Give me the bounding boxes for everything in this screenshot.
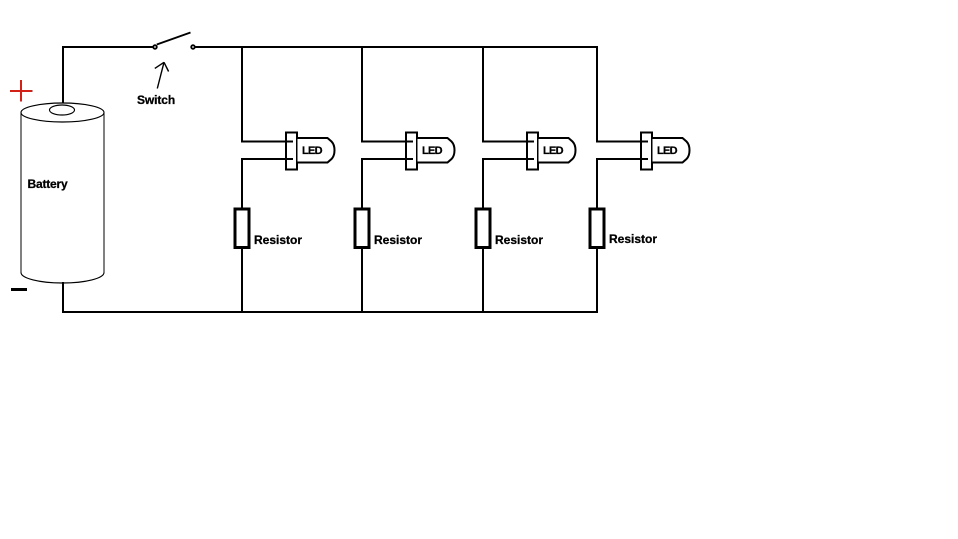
switch callout arrow bbox=[155, 62, 169, 88]
svg-text:Resistor: Resistor bbox=[609, 232, 657, 246]
battery bottom arc bbox=[21, 273, 104, 283]
wire: branch 1 vertical from LED cathode to resistor R1 bbox=[241, 158, 243, 208]
switch S1 right contact bbox=[191, 45, 195, 49]
wire: branch 4 vertical from LED cathode to resistor R4 bbox=[596, 158, 598, 208]
LED D4 body bbox=[653, 138, 690, 163]
wire: branch 4 vertical from top rail to LED anode lead bbox=[596, 46, 598, 143]
svg-text:Resistor: Resistor bbox=[495, 233, 543, 247]
wire: bottom rail bbox=[62, 311, 598, 313]
LED D2 flange bbox=[406, 133, 417, 170]
resistor R4 bbox=[590, 209, 604, 248]
battery body left side bbox=[20, 113, 22, 273]
battery top ellipse bbox=[21, 103, 104, 122]
wire: LED D4 top lead (anode) bbox=[596, 141, 648, 143]
battery terminal button ellipse bbox=[50, 105, 75, 115]
wire: branch 3 vertical from resistor R3 to bottom rail bbox=[482, 248, 484, 313]
wire: branch 2 vertical from resistor R2 to bottom rail bbox=[361, 248, 363, 313]
wire: LED D3 top lead (anode) bbox=[482, 141, 534, 143]
wire: LED D4 bottom lead (cathode) bbox=[596, 158, 648, 160]
svg-text:LED: LED bbox=[302, 145, 323, 157]
wire: branch 3 vertical from LED cathode to resistor R3 bbox=[482, 158, 484, 208]
svg-text:Battery: Battery bbox=[28, 177, 68, 191]
LED D3 body bbox=[539, 138, 576, 163]
wire: branch 1 vertical from top rail to LED anode lead bbox=[241, 46, 243, 143]
wire: branch 1 vertical from resistor R1 to bottom rail bbox=[241, 248, 243, 313]
LED D1 flange bbox=[286, 133, 297, 170]
wire: branch 4 vertical from resistor R4 to bottom rail bbox=[596, 248, 598, 313]
svg-text:LED: LED bbox=[657, 145, 678, 157]
svg-text:LED: LED bbox=[422, 145, 443, 157]
battery body right side bbox=[103, 113, 105, 273]
wire: branch 2 vertical from LED cathode to resistor R2 bbox=[361, 158, 363, 208]
LED D2 body bbox=[418, 138, 455, 163]
LED D4 flange bbox=[641, 133, 652, 170]
wire: LED D1 bottom lead (cathode) bbox=[241, 158, 293, 160]
battery negative (-) symbol bbox=[11, 288, 27, 291]
resistor R1 bbox=[235, 209, 249, 248]
svg-text:Resistor: Resistor bbox=[254, 233, 302, 247]
switch S1 left contact bbox=[153, 45, 157, 49]
resistor R2 bbox=[355, 209, 369, 248]
wire: branch 3 vertical from top rail to LED anode lead bbox=[482, 46, 484, 143]
wire: battery negative terminal to bottom rail bbox=[62, 282, 64, 313]
svg-text:Resistor: Resistor bbox=[374, 233, 422, 247]
wire: LED D3 bottom lead (cathode) bbox=[482, 158, 534, 160]
wire: branch 2 vertical from top rail to LED anode lead bbox=[361, 46, 363, 143]
svg-text:LED: LED bbox=[543, 145, 564, 157]
wire: LED D2 bottom lead (cathode) bbox=[361, 158, 413, 160]
resistor R3 bbox=[476, 209, 490, 248]
wire: top rail right segment (switch to right edge) bbox=[196, 46, 599, 48]
wire: LED D1 top lead (anode) bbox=[241, 141, 293, 143]
wire: top rail left segment (battery + to switch) bbox=[62, 46, 153, 48]
LED D3 flange bbox=[527, 133, 538, 170]
LED D1 body bbox=[298, 138, 335, 163]
battery positive (+) symbol bbox=[10, 80, 32, 102]
switch S1 lever bbox=[157, 33, 191, 45]
wire: LED D2 top lead (anode) bbox=[361, 141, 413, 143]
wire: battery positive terminal to top rail bbox=[62, 46, 64, 104]
svg-text:Switch: Switch bbox=[137, 93, 175, 107]
